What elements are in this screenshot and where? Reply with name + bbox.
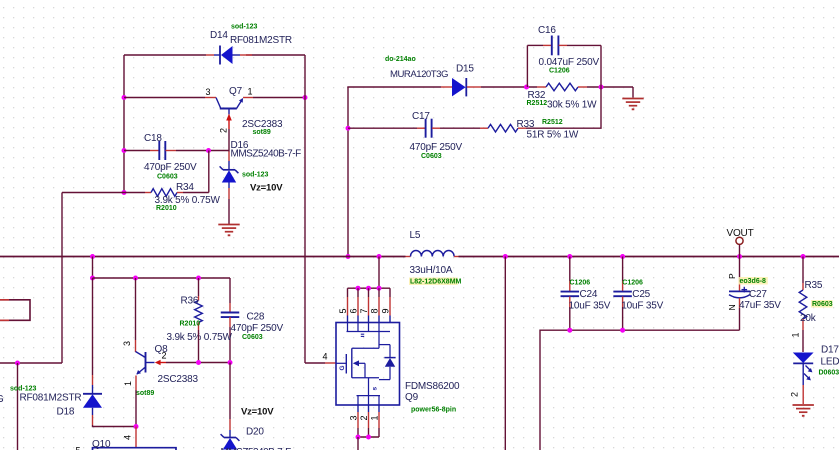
junction at (198.5,362.5) [196,360,201,365]
diode D15 MURA120T3G (do-214ao) [441,78,481,96]
svg-text:Q10: Q10 [92,439,111,450]
junction at (124,97.5) [122,95,127,100]
svg-text:R0603: R0603 [812,301,833,308]
svg-text:C24: C24 [580,289,598,300]
capacitor C17 470pF 250V (C0603) [417,119,440,138]
wire: riser x=505 from bus to bottom edge [504,257,506,450]
port VOUT [727,228,754,257]
junction at (135.5,278) [133,276,138,281]
svg-text:8: 8 [370,309,380,314]
wire: drain riser from bus to pin wire [378,257,380,289]
svg-text:9: 9 [381,309,391,314]
wire: capacitor ground return rail y=330 [540,330,740,450]
capacitor C27 47uF 35V (eo3d6-8) polarized [729,281,750,308]
wire: Q9 source header wire [358,436,379,438]
svg-text:1: 1 [123,381,133,386]
wire: lower distribution horizontal y=278 [93,277,231,279]
junction at (601,87) [599,85,604,90]
wire: Q7 emitter down to zener D16 [228,129,230,152]
junction at (230,362.5) [228,360,233,365]
wire: D18 bottom corner to Q10 pin 4 [93,425,137,427]
junction at (505.3,256.5) [503,254,508,259]
svg-text:C0603: C0603 [242,334,263,341]
svg-text:4: 4 [123,435,133,440]
svg-text:RF081M2STR: RF081M2STR [20,393,82,404]
capacitor C25 10uF 35V (C1206) [613,281,632,307]
svg-text:L82-12D6X8MM: L82-12D6X8MM [410,279,462,286]
svg-text:47uF 35V: 47uF 35V [739,300,781,311]
svg-text:R2512: R2512 [542,119,563,126]
junction at (124,150.5) [122,148,127,153]
svg-text:2: 2 [359,416,369,421]
wire: C17 to R33 [440,127,480,129]
wire: vertical x=62 down to lower-left net [61,193,63,364]
svg-text:20k: 20k [800,313,817,324]
wire: D16 anode to ground [228,188,230,199]
svg-text:C27: C27 [749,289,767,300]
svg-text:sod-123: sod-123 [10,386,37,393]
svg-text:51R 5% 1W: 51R 5% 1W [527,130,579,141]
wire: drop from (17.5,363) to bottom edge [17,363,19,450]
svg-text:3: 3 [206,87,211,97]
wire: lower snubber branch from riser to C17 [348,127,417,129]
svg-text:sot89: sot89 [136,390,154,397]
svg-text:R2010: R2010 [156,205,177,212]
junction at (368.5,288.2) [366,286,371,291]
junction at (136,426.5) [134,424,139,429]
capacitor C28 470pF 250V (C0603) vertical [221,303,240,327]
svg-text:D0603: D0603 [819,370,839,377]
mosfet Q9 FDMS86200 (power56-8pin) body box [336,323,400,406]
junction at (379,288.2) [377,286,382,291]
wire: top net from left rail to D14 cathode [124,54,206,56]
junction at (198.5,278) [196,276,201,281]
wire: C24 top feed [569,257,571,282]
wire: base feed to Q7 pin 3 [124,97,205,99]
transistor Q10 (partial box at bottom edge) [93,448,177,450]
svg-text:power56-8pin: power56-8pin [411,407,456,414]
svg-text:D17: D17 [821,345,839,356]
svg-text:3: 3 [349,416,359,421]
wire: Q8 collector wire to C28/D20 node [166,362,230,364]
svg-text:N: N [727,305,737,311]
svg-text:3: 3 [122,341,132,346]
wire: D18 branch from distribution [92,278,94,375]
svg-text:sod-123: sod-123 [231,24,258,31]
wire: C25 bottom to ground rail [622,307,624,330]
wire: stub wire going left then down at x=62 [62,192,124,194]
wire: Q9 bottom pin stubs [358,405,379,437]
wire: C18 branch from left rail [124,150,150,152]
junction at (358,288.2) [356,286,361,291]
svg-text:eo3d6-8: eo3d6-8 [740,278,767,285]
svg-text:C0603: C0603 [421,153,442,160]
svg-text:1: 1 [248,87,253,97]
wire: snubber top horizontal to D15 [348,86,441,89]
mosfet Q9 source bar [357,378,381,405]
svg-text:FDMS86200: FDMS86200 [405,381,460,392]
resistor R32 30k 5% 1W (R2512) [537,83,587,91]
wire: right rail vertical x=305 down to Q9 gate level [304,55,306,363]
junction at (569.8,330.2) [567,328,572,333]
svg-text:0.047uF 250V: 0.047uF 250V [539,57,600,68]
wire: lower-left horizontal to edge [0,362,62,364]
svg-text:P: P [727,273,737,279]
svg-text:D14: D14 [210,30,228,41]
wire: C25 top feed [622,257,624,282]
wire: R34 branch from left rail [124,192,145,194]
ground symbol below D16 [218,224,239,226]
component box partial at left edge [0,300,30,321]
wire: R34 right end to riser [183,192,209,194]
junction at (358,437) [356,435,361,440]
svg-text:Q7: Q7 [229,86,243,97]
svg-text:Vz=10V: Vz=10V [241,407,274,418]
svg-text:1: 1 [791,333,801,338]
svg-text:s: s [372,387,379,391]
wire: C24 bottom to ground rail [569,307,571,330]
transistor Q8 2SC2383 (sot89) [136,340,167,390]
label R35 footprint R0603 [811,300,833,308]
ground symbol top right [622,98,643,100]
wire: Q7 pin 1 to right rail [253,97,305,99]
junction at (739.5,256.5) [737,254,742,259]
svg-text:6: 6 [349,309,359,314]
svg-text:sot89: sot89 [253,129,271,136]
svg-text:R2512: R2512 [527,100,548,107]
wire: Q9 gate feed corner from right rail [305,362,325,364]
svg-text:10uF 35V: 10uF 35V [569,301,611,312]
svg-text:C28: C28 [247,312,265,323]
resistor R34 3.9k 5% 0.75W (R2010) [145,189,183,197]
junction at (124,192.5) [122,190,127,195]
wire: Q8 emitter down to D18 node [135,390,137,427]
svg-text:2SC2383: 2SC2383 [158,374,199,385]
svg-text:C18: C18 [144,133,162,144]
svg-text:1: 1 [370,416,380,421]
svg-text:R36: R36 [181,296,199,307]
wire: R33 right end riser up to R32 output node [526,87,601,128]
svg-text:D20: D20 [246,427,264,438]
junction at (17.5,363) [15,361,20,366]
svg-text:C0603: C0603 [157,174,178,181]
ground symbol below D17 [793,404,814,406]
junction at (622.6,330.2) [620,328,625,333]
zener diode D16 MMSZ5240B-7-F (sod-123) [220,166,239,188]
svg-text:C25: C25 [632,289,650,300]
svg-text:MMSZ5240B-7-F: MMSZ5240B-7-F [231,149,302,160]
junction at (622.6,256.5) [620,254,625,259]
svg-text:7: 7 [359,309,369,314]
svg-text:sod-123: sod-123 [242,172,269,179]
label C27 footprint eo3d6-8 [739,277,768,285]
wire: corner down to C28 [229,278,231,303]
svg-text:10uF 35V: 10uF 35V [621,301,663,312]
svg-text:LED_R: LED_R [821,357,839,368]
svg-text:G: G [0,394,4,405]
diode D18 RF081M2STR (sod-123) vertical [83,375,102,425]
wire: R36 top feed [198,278,200,296]
capacitor C18 470pF 250V (C0603) [150,141,176,160]
junction at (379,256.5) [377,254,382,259]
wire: R36 bottom to Q8 collector net [198,330,200,363]
wire: left rail vertical x=124 [123,55,125,193]
wire: source drop to bottom edge [357,437,359,450]
wire: Q9 top pin stubs [348,288,391,322]
wire: C27 top feed [739,257,741,282]
wire: C18 right to emitter node [176,150,229,152]
svg-text:RF081M2STR: RF081M2STR [230,35,292,46]
svg-text:5: 5 [76,446,81,450]
svg-text:470pF 250V: 470pF 250V [231,323,284,334]
junction at (92.5,256.5) [90,254,95,259]
zener diode D20 MMSZ5240B-7-F (sod-123) [221,419,240,450]
wire: riser x=348 from bus up to snubber [347,87,349,257]
svg-text:5: 5 [338,309,348,314]
svg-text:C17: C17 [412,111,430,122]
mosfet Q9 internal drain bar [347,323,391,349]
led D17 LED (D0603) [793,353,814,386]
wire: down to Q10 pin 4 [135,427,137,448]
svg-text:30k 5% 1W: 30k 5% 1W [547,100,597,111]
resistor R36 3.9k 5% 0.75W (R2010) vertical [195,296,203,330]
svg-text:3.9k 5% 0.75W: 3.9k 5% 0.75W [167,332,233,343]
wire: D15 cathode to R32 [481,86,537,88]
svg-text:L5: L5 [410,230,421,241]
svg-text:470pF 250V: 470pF 250V [144,162,197,173]
svg-text:2: 2 [219,128,229,133]
mosfet Q9 gate and channel [336,348,379,378]
junction at (526.5,87) [524,85,529,90]
wire: Q9 drain pin header wire [348,287,391,289]
svg-text:33uH/10A: 33uH/10A [410,265,453,276]
inductor L5 33uH/10A (L82-12D6X8MM) [406,251,459,257]
wire: riser joining R34 right end to C18 wire [208,151,210,193]
mosfet Q9 pin-name d mark [361,334,364,336]
junction at (208.5,150.5) [206,148,211,153]
svg-text:R34: R34 [176,182,194,193]
wire: R35 top feed from bus [802,257,804,284]
wire: D14 anode to right rail [246,54,305,56]
svg-text:Q9: Q9 [405,392,419,403]
svg-text:C1206: C1206 [622,280,643,287]
svg-text:2: 2 [162,351,167,361]
svg-text:D18: D18 [57,407,75,418]
wire: R35 bottom to D17 [802,330,804,352]
junction at (92.5,278) [90,276,95,281]
resistor R35 20k (R0603) vertical [799,283,807,330]
wire: D17 cathode to ground [802,385,804,404]
svg-text:R2010: R2010 [180,321,201,328]
svg-text:R35: R35 [805,280,823,291]
transistor Q7 2SC2383 (sot89) [205,98,253,130]
junction at (348,256.5) on bus [346,254,351,259]
wire: R32 right to ground corner [587,86,633,88]
svg-text:D15: D15 [456,64,474,75]
wire: VOUT bus right of L5 [459,256,839,258]
wire: ground stem [632,87,634,98]
svg-text:Vz=10V: Vz=10V [250,183,283,194]
svg-text:4: 4 [323,352,328,362]
junction at (368.5,437) [366,435,371,440]
resistor R33 51R 5% 1W (R2512) [480,124,526,132]
svg-text:G: G [339,366,346,371]
wire: drop from bus to lower distribution [92,257,94,279]
junction at (569.8,256.5) [567,254,572,259]
junction at (305,97.5) [303,95,308,100]
svg-text:470pF 250V: 470pF 250V [410,142,463,153]
capacitor C16 0.047uF 250V (C1206) bypass loop [527,36,601,88]
svg-text:C1206: C1206 [570,280,591,287]
svg-text:C1206: C1206 [549,68,570,75]
junction at (348,128.2) [346,126,351,131]
svg-text:C16: C16 [538,25,556,36]
wire: C28 bottom to Q8 collector net [229,327,231,363]
junction at (803,256.5) [801,254,806,259]
svg-text:MURA120T3G: MURA120T3G [390,69,448,80]
wire: C27 bottom to ground rail [739,308,741,330]
label L5 footprint L82-12D6X8MM [409,278,458,286]
diode D14 RF081M2STR (sod-123), pointing left [206,46,252,65]
svg-text:2: 2 [790,392,800,397]
capacitor C24 10uF 35V (C1206) [561,281,580,307]
wire: Q8 base feed from distribution [135,278,137,340]
svg-text:do-214ao: do-214ao [385,56,416,63]
wire: main switch-node bus left of L5 [0,256,406,258]
mosfet Q9 body diode [379,345,396,380]
wire: D20 branch below Q8 collector node [229,363,231,420]
